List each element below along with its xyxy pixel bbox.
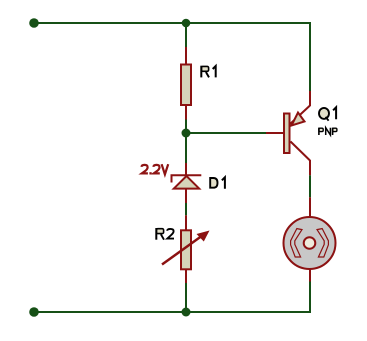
wire D1 to R2 [185, 203, 187, 215]
terminal dot bottom-left [29, 307, 39, 317]
motor M1 [284, 197, 336, 281]
junction at top of R1 [182, 19, 191, 28]
wire bottom rail [34, 311, 311, 313]
wire R1 top [185, 23, 187, 47]
wire right drop to Q1 emitter [309, 22, 311, 91]
diode D1 (zener) [171, 163, 202, 203]
terminal dot top-left [29, 18, 39, 28]
wire motor to bottom rail [309, 282, 311, 314]
value 2.2V [142, 164, 169, 174]
resistor R2 (variable) [162, 215, 210, 283]
wire R2 to bottom junction [185, 283, 187, 312]
junction bottom [182, 308, 191, 317]
label D1 [210, 177, 225, 188]
wire top rail [34, 22, 310, 24]
wire R1 bottom to base junction [185, 120, 187, 134]
label R1 [201, 66, 215, 78]
wire collector to motor [309, 175, 311, 197]
wire base [186, 132, 266, 134]
label R2 [156, 228, 174, 240]
label Q1 [319, 107, 336, 120]
resistor R1 [181, 47, 191, 120]
transistor Q1 [266, 91, 310, 175]
label PNP [319, 128, 337, 135]
junction base node [182, 129, 191, 138]
wire base junction down to D1 [185, 133, 187, 163]
